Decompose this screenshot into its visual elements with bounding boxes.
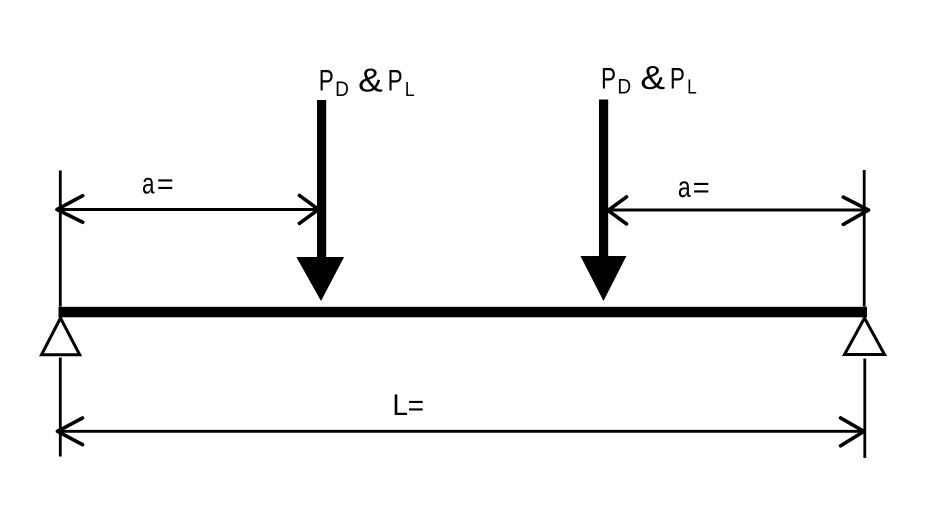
svg-text:L: L	[405, 78, 415, 100]
svg-text:P: P	[319, 64, 334, 98]
svg-text:P: P	[388, 64, 403, 98]
svg-text:L: L	[392, 389, 408, 422]
svg-text:=: =	[157, 167, 174, 201]
svg-text:P: P	[601, 61, 616, 95]
svg-text:&: &	[358, 62, 383, 99]
svg-text:=: =	[693, 171, 710, 204]
svg-text:&: &	[640, 60, 665, 97]
svg-text:D: D	[617, 76, 631, 99]
svg-text:a: a	[678, 170, 691, 204]
svg-text:=: =	[408, 390, 424, 423]
svg-text:a: a	[142, 167, 155, 201]
svg-text:L: L	[687, 75, 697, 97]
svg-text:D: D	[335, 78, 349, 101]
svg-text:P: P	[670, 61, 685, 95]
